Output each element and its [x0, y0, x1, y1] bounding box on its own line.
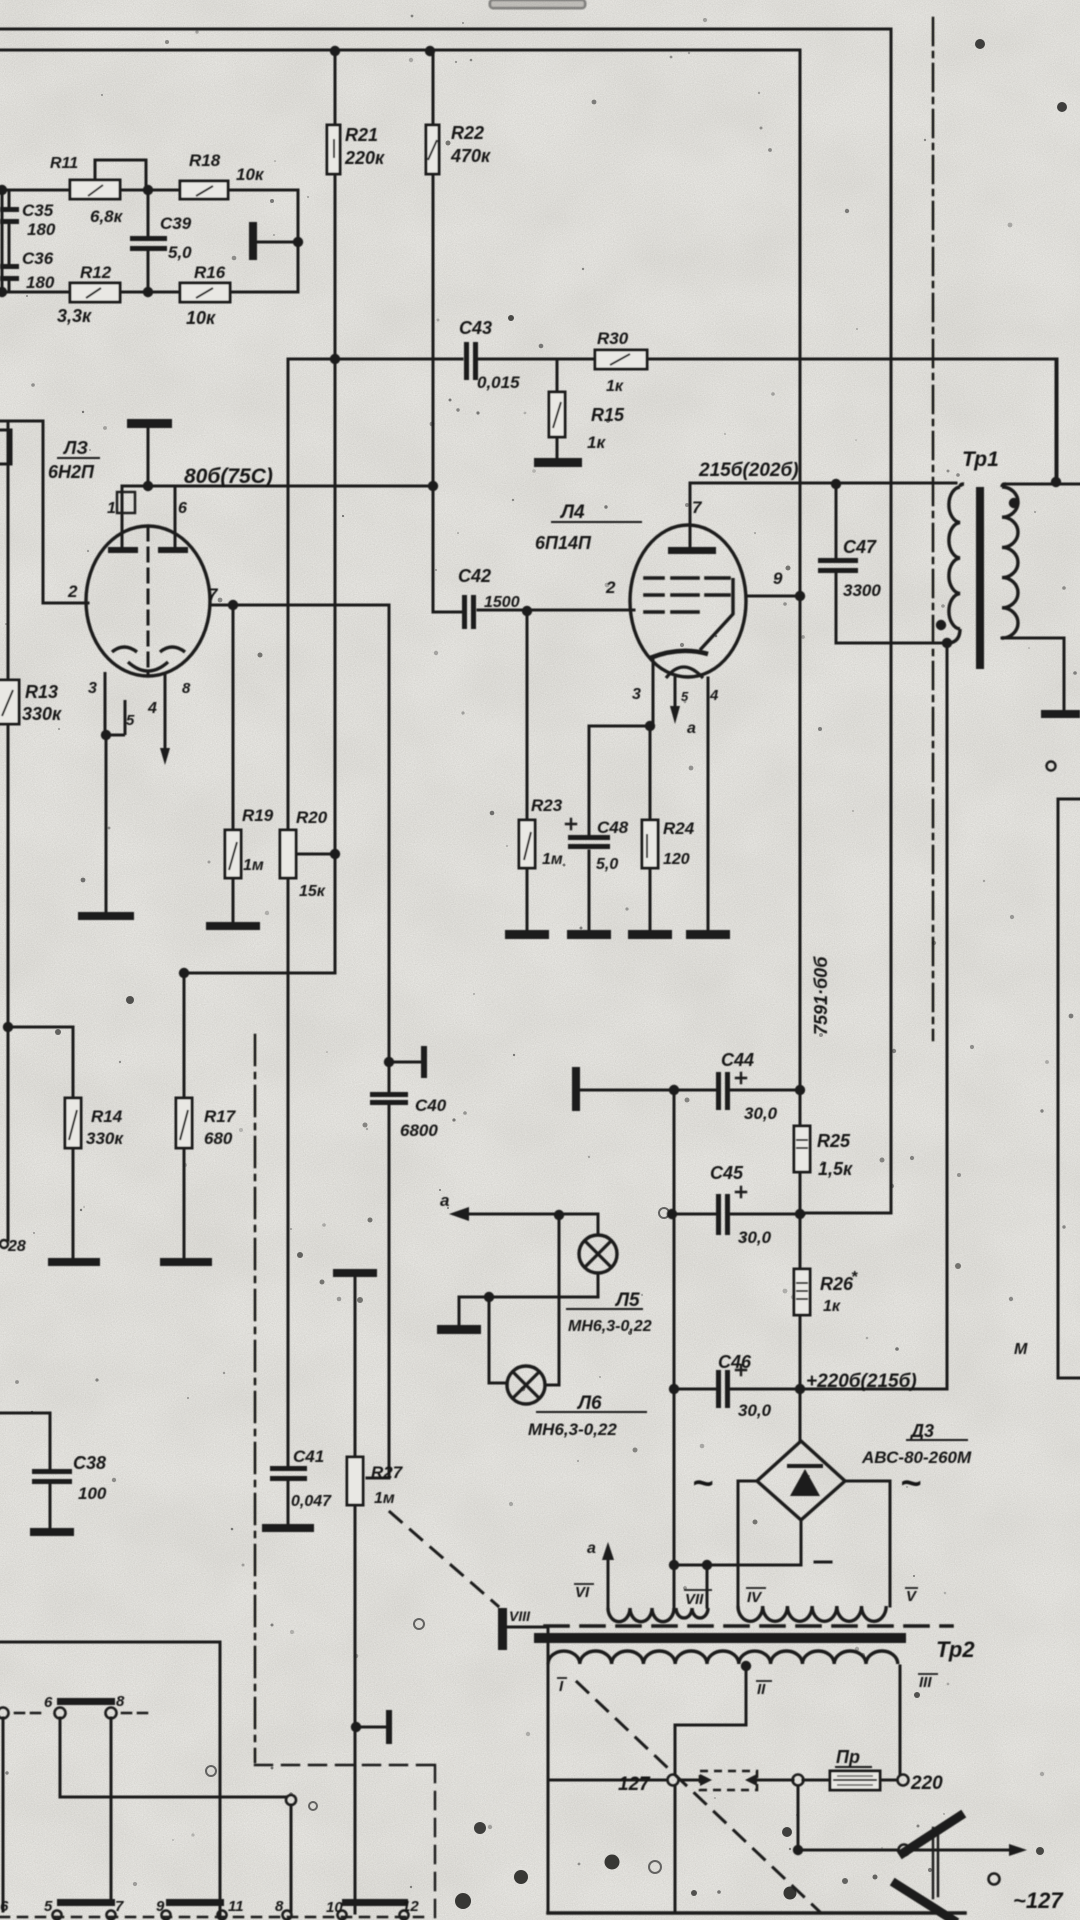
svg-text:М: М — [1014, 1341, 1028, 1358]
svg-text:Тр2: Тр2 — [936, 1637, 975, 1662]
svg-text:С46: С46 — [718, 1352, 752, 1372]
svg-text:10к: 10к — [186, 308, 216, 328]
svg-text:~127: ~127 — [1013, 1888, 1064, 1913]
svg-text:Тр1: Тр1 — [962, 448, 999, 471]
svg-text:~: ~ — [692, 1462, 713, 1503]
svg-text:III: III — [919, 1674, 932, 1691]
svg-text:3,3к: 3,3к — [57, 306, 92, 326]
svg-text:С43: С43 — [459, 318, 492, 338]
svg-text:0,015: 0,015 — [477, 373, 520, 392]
svg-text:R19: R19 — [242, 806, 274, 825]
svg-text:МН6,3-0,22: МН6,3-0,22 — [528, 1420, 617, 1439]
svg-text:R30: R30 — [597, 329, 629, 348]
svg-text:7: 7 — [115, 1898, 124, 1915]
svg-text:1м: 1м — [542, 851, 563, 868]
svg-text:С47: С47 — [843, 537, 877, 557]
svg-text:a: a — [587, 1540, 596, 1557]
svg-text:С36: С36 — [22, 249, 54, 268]
svg-text:12: 12 — [402, 1898, 419, 1915]
svg-text:R12: R12 — [80, 263, 112, 282]
svg-text:R26: R26 — [820, 1274, 854, 1294]
svg-text:1: 1 — [107, 500, 116, 517]
svg-text:1,5к: 1,5к — [818, 1159, 853, 1179]
svg-text:С42: С42 — [458, 566, 491, 586]
svg-text:5: 5 — [126, 712, 135, 729]
svg-text:180: 180 — [27, 220, 56, 239]
svg-text:6П14П: 6П14П — [535, 533, 592, 553]
svg-text:~: ~ — [900, 1462, 921, 1503]
svg-text:С39: С39 — [160, 214, 192, 233]
svg-text:220: 220 — [910, 1773, 943, 1794]
svg-text:МН6,3-0,22: МН6,3-0,22 — [568, 1318, 652, 1335]
svg-text:2: 2 — [605, 578, 616, 597]
svg-text:VIII: VIII — [509, 1608, 531, 1624]
svg-text:6Н2П: 6Н2П — [48, 462, 95, 482]
svg-text:10: 10 — [326, 1899, 343, 1916]
svg-text:1к: 1к — [606, 378, 624, 395]
svg-text:a: a — [687, 720, 696, 737]
svg-text:II: II — [757, 1681, 766, 1698]
svg-text:R24: R24 — [663, 819, 695, 838]
svg-text:R17: R17 — [204, 1107, 237, 1126]
svg-text:С44: С44 — [721, 1050, 754, 1070]
svg-text:215б(202б): 215б(202б) — [698, 460, 799, 481]
svg-text:100: 100 — [78, 1484, 107, 1503]
svg-text:120: 120 — [663, 851, 690, 868]
svg-text:Л4: Л4 — [559, 502, 585, 523]
svg-text:6800: 6800 — [400, 1121, 438, 1140]
svg-text:С40: С40 — [415, 1096, 447, 1115]
svg-text:*: * — [851, 1269, 858, 1286]
svg-text:Д3: Д3 — [909, 1421, 934, 1441]
svg-text:VII: VII — [685, 1591, 704, 1608]
svg-text:330к: 330к — [86, 1129, 124, 1148]
svg-text:30,0: 30,0 — [738, 1228, 772, 1247]
svg-text:680: 680 — [204, 1129, 233, 1148]
svg-text:R21: R21 — [345, 125, 378, 145]
svg-text:470к: 470к — [450, 146, 491, 166]
svg-text:3: 3 — [632, 686, 641, 703]
svg-text:R15: R15 — [591, 405, 625, 425]
svg-text:127: 127 — [618, 1774, 651, 1795]
svg-text:С41: С41 — [293, 1447, 324, 1466]
svg-text:VI: VI — [575, 1584, 590, 1601]
svg-text:30,0: 30,0 — [744, 1104, 778, 1123]
svg-text:28: 28 — [7, 1238, 26, 1255]
svg-text:1м: 1м — [243, 857, 264, 874]
svg-text:+220б(215б): +220б(215б) — [806, 1371, 917, 1392]
svg-text:7: 7 — [692, 498, 703, 517]
svg-text:6: 6 — [0, 1898, 9, 1915]
svg-text:11: 11 — [228, 1898, 244, 1915]
svg-text:9: 9 — [773, 569, 783, 588]
svg-text:С38: С38 — [73, 1453, 106, 1473]
svg-text:1к: 1к — [587, 433, 606, 452]
svg-text:R27: R27 — [371, 1463, 404, 1482]
svg-text:1500: 1500 — [484, 594, 520, 611]
svg-text:5,0: 5,0 — [168, 243, 192, 262]
svg-text:3: 3 — [88, 680, 97, 697]
svg-text:R20: R20 — [296, 808, 328, 827]
svg-text:8: 8 — [182, 680, 191, 697]
svg-text:ЛЗ: ЛЗ — [62, 438, 88, 458]
svg-text:6: 6 — [178, 500, 187, 517]
svg-text:5: 5 — [681, 689, 689, 704]
svg-text:1м: 1м — [374, 1490, 395, 1507]
svg-text:С45: С45 — [710, 1163, 744, 1183]
svg-text:R23: R23 — [531, 796, 563, 815]
svg-text:180: 180 — [26, 273, 55, 292]
svg-text:8: 8 — [275, 1898, 284, 1915]
svg-text:R16: R16 — [194, 263, 226, 282]
svg-text:80б(75С): 80б(75С) — [184, 465, 273, 488]
svg-text:С35: С35 — [22, 201, 54, 220]
svg-text:6: 6 — [44, 1694, 53, 1711]
svg-text:7: 7 — [208, 585, 219, 604]
svg-text:R13: R13 — [25, 682, 58, 702]
svg-text:R18: R18 — [189, 151, 221, 170]
svg-text:8: 8 — [116, 1693, 125, 1710]
svg-text:7591·б0б: 7591·б0б — [811, 956, 831, 1035]
svg-text:9: 9 — [156, 1898, 165, 1915]
svg-text:15к: 15к — [299, 883, 326, 900]
svg-text:Пр: Пр — [836, 1747, 860, 1767]
svg-text:С48: С48 — [597, 818, 629, 837]
svg-text:a: a — [440, 1191, 449, 1210]
svg-text:R14: R14 — [91, 1107, 123, 1126]
svg-text:4: 4 — [709, 687, 719, 704]
svg-text:30,0: 30,0 — [738, 1401, 772, 1420]
svg-text:1к: 1к — [823, 1298, 841, 1315]
svg-text:6,8к: 6,8к — [90, 207, 124, 226]
svg-text:3300: 3300 — [843, 581, 881, 600]
svg-text:Л6: Л6 — [576, 1393, 602, 1414]
svg-text:220к: 220к — [344, 148, 385, 168]
svg-text:R11: R11 — [50, 155, 78, 172]
svg-text:Л5: Л5 — [614, 1290, 640, 1311]
svg-text:10к: 10к — [236, 165, 265, 184]
svg-text:5: 5 — [44, 1898, 53, 1915]
svg-text:0,047: 0,047 — [291, 1493, 332, 1510]
svg-text:5,0: 5,0 — [596, 856, 618, 873]
svg-text:IV: IV — [747, 1589, 763, 1606]
svg-text:R22: R22 — [451, 123, 484, 143]
svg-text:2: 2 — [67, 582, 78, 601]
svg-text:4: 4 — [147, 700, 157, 717]
svg-text:330к: 330к — [22, 704, 62, 724]
svg-text:R25: R25 — [817, 1131, 851, 1151]
